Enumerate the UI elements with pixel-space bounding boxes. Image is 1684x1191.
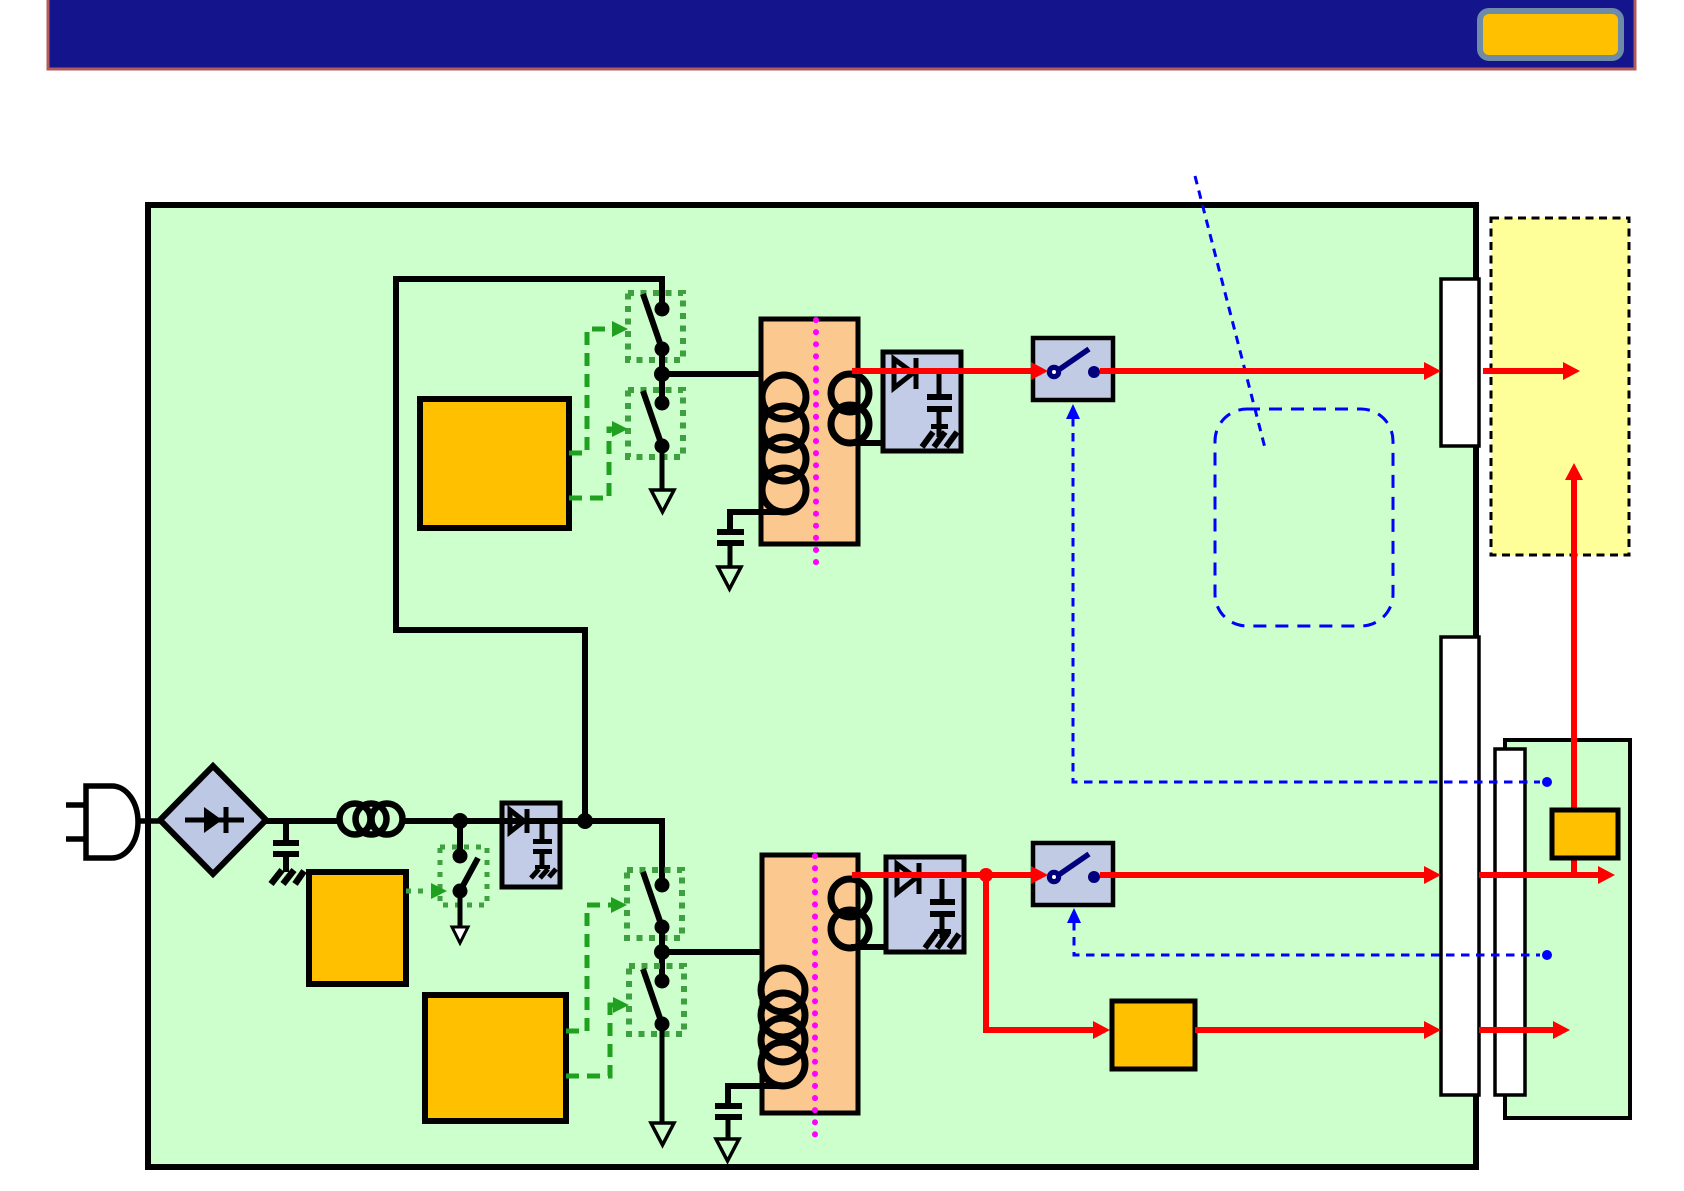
ground (hatched) in U3: [922, 432, 957, 447]
aux module U7 (yellow, daughter board): [1552, 810, 1618, 858]
snubber module D1 (blue box on AC rail): [502, 803, 560, 887]
inductor L1: [340, 804, 403, 835]
main PCB board: [148, 205, 1476, 1167]
PWM controller U2 (yellow): [420, 399, 569, 528]
bridge rectifier: [160, 766, 266, 874]
wire: T2 primary return to cap: [728, 1086, 783, 1103]
connector J2 (long white bar): [1441, 637, 1479, 1095]
output rectifier module U5 (bottom blue box): [886, 857, 964, 952]
red rail: U6 to connector J2: [1195, 1027, 1425, 1033]
output switch SW1 (top blue box): [1033, 338, 1113, 400]
daughter board (right): [1505, 740, 1630, 1118]
relay switch S5 (dotted enclosure): [629, 966, 684, 1034]
T1 secondary winding: [831, 374, 869, 443]
wire: T1 primary return to cap: [730, 512, 784, 529]
ground (open triangle) under C2: [718, 567, 741, 589]
ground (hatched) in U5: [925, 933, 959, 948]
wire: bridge to inductor: [266, 818, 341, 824]
capacitor C3: [715, 1103, 742, 1109]
node A junction: [452, 813, 468, 829]
control line: U4 to S4 (green dashed): [566, 905, 611, 1031]
wire: S4 to node D: [659, 927, 665, 981]
output switch SW2 (bottom blue box): [1033, 843, 1113, 905]
red rail: SW2 to connector J2: [1100, 872, 1425, 878]
transformer T2 (bottom): [762, 855, 858, 1113]
wire: T2 secondary to output rectifier: [851, 944, 886, 950]
transformer T1 (top): [761, 319, 858, 544]
blue dashed callout rounded box: [1215, 409, 1393, 626]
relay switch S1 (dotted enclosure): [440, 847, 487, 905]
standby controller U4 (yellow): [425, 995, 566, 1121]
ground (open triangle) under S5: [651, 1123, 674, 1145]
control line: U2 to S3 (green dashed): [569, 429, 612, 498]
relay switch S4 (dotted enclosure): [627, 870, 682, 938]
wire: S2 to node C: [659, 349, 665, 403]
red rail: daughter board up to load box: [1571, 479, 1577, 877]
red rail: SW1 to connector J1: [1100, 368, 1425, 374]
node C junction: [654, 366, 670, 382]
ground (hatched) in D1: [531, 869, 556, 878]
wire: node B up and over to primary switch chain (top): [396, 279, 662, 815]
T2 secondary winding: [831, 879, 869, 948]
T1 primary winding: [762, 375, 806, 512]
node dot (blue): [1542, 950, 1552, 960]
red rail: branch down to aux regulator: [986, 875, 1094, 1030]
ground (open triangle) under S3: [651, 490, 674, 512]
wire: node D to transformer T2 primary: [662, 952, 787, 968]
red rail: J2/J3 to daughter board (bottom): [1479, 1027, 1553, 1033]
connector J1 (top white bar): [1441, 279, 1479, 446]
title bar: [48, 0, 1635, 69]
output rectifier module U3 (top blue box): [883, 352, 961, 451]
wire: S5 to ground: [660, 1024, 665, 1122]
capacitor C2: [717, 529, 744, 535]
T2 isolation boundary (magenta dotted): [812, 856, 818, 1144]
control block U1 (yellow): [309, 872, 406, 984]
blue control dashed: SW2 enable: [1074, 922, 1540, 955]
wire: inductor to node B: [402, 818, 662, 824]
wire: S3 to ground: [660, 446, 665, 489]
red node junction: [979, 868, 993, 882]
red rail: J1 into load box: [1483, 368, 1563, 374]
wire: node A down to relay S1: [457, 821, 463, 858]
ground (hatched) for C1: [271, 870, 304, 884]
red rail: T2 secondary to SW2: [852, 872, 1032, 878]
wire: node B to bottom switch chain: [585, 821, 662, 885]
wire: node C to transformer T1 primary: [662, 371, 782, 377]
control line: U1 to S1 (green dotted arrow): [406, 889, 430, 894]
wire: S1 to ground: [458, 891, 463, 927]
red rail: J2 to daughter board: [1479, 872, 1598, 878]
node dot (blue): [1542, 777, 1552, 787]
connector J3 (daughter board white bar): [1495, 749, 1525, 1095]
relay switch S2 (top, dotted enclosure): [628, 293, 683, 360]
ground (open triangle) under S1: [452, 927, 468, 943]
wire through snubber module: [502, 818, 560, 824]
yellow dashed load box: [1491, 218, 1629, 555]
control line: U4 to S5 (green dashed): [566, 1005, 613, 1076]
aux regulator U6 (yellow): [1112, 1001, 1195, 1069]
node D junction: [654, 944, 670, 960]
control line: U2 to S2 (green dashed): [569, 329, 612, 453]
bulk capacitor C1: [273, 821, 299, 872]
T1 isolation boundary (magenta dotted): [813, 320, 819, 572]
blue dashed callout leader line: [1195, 176, 1265, 448]
T2 primary winding: [761, 968, 805, 1086]
red rail: T1 secondary to SW1: [852, 368, 1032, 374]
blue control dashed: SW1 enable: [1073, 418, 1540, 782]
node B junction: [577, 813, 593, 829]
ground (open triangle) under C3: [716, 1139, 739, 1161]
wire: T1 secondary to output rectifier: [851, 440, 886, 446]
title bar button: [1480, 11, 1621, 58]
AC plug: [66, 786, 160, 858]
relay switch S3 (dotted enclosure): [628, 390, 683, 457]
